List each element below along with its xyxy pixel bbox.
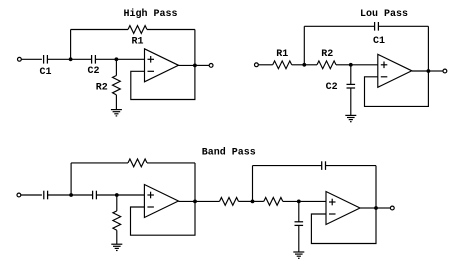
wire: feedback capacitor to top-right corner [326, 165, 377, 167]
resistor R2 (low pass) [317, 61, 336, 69]
capacitor C1 (low pass feedback) [374, 22, 376, 31]
wire: R4 to ground [116, 230, 118, 244]
wire: node D down to C2 [350, 65, 352, 85]
wire: C4 to node F [96, 194, 116, 196]
wire: op-amp output to node [412, 70, 429, 72]
svg-text:C1: C1 [39, 67, 51, 78]
svg-text:R1: R1 [131, 37, 143, 48]
wire: op-amp U4 output to node [360, 207, 376, 209]
output terminal (high pass) [209, 64, 213, 68]
wire: C2 to ground [350, 88, 352, 115]
ground (high pass) [111, 109, 122, 111]
node C junction (R1/R2/C1) [302, 63, 306, 67]
wire: C1 to top-right corner [378, 25, 428, 27]
wire: node H to op-amp + input [299, 200, 326, 202]
output terminal (low pass) [443, 69, 447, 73]
wire: feedback loop U3 output to inverting input [131, 201, 196, 235]
svg-text:Lou Pass: Lou Pass [360, 9, 408, 20]
svg-text:Band Pass: Band Pass [202, 147, 256, 159]
wire: output node to terminal [195, 64, 209, 66]
svg-text:R2: R2 [321, 49, 333, 60]
output terminal (band pass) [390, 206, 394, 210]
wire: C1 to node A [47, 58, 70, 60]
wire: node B to op-amp + input [116, 58, 144, 60]
wire: C2 to node B [95, 58, 116, 60]
ground (band pass stage 1) [111, 243, 122, 245]
capacitor C3 (band pass input) [43, 191, 45, 200]
wire: top-right corner down to output node [427, 26, 429, 71]
capacitor C2 [91, 55, 93, 64]
wire: node F to op-amp + input [117, 194, 145, 196]
capacitor C4 [92, 191, 94, 200]
wire: C6 to ground [298, 225, 300, 252]
wire: input to R1 [258, 64, 272, 66]
wire: R2 to node D [336, 64, 351, 66]
wire: feedback loop U4 output to inverting input [311, 208, 376, 244]
svg-text:R2: R2 [96, 83, 108, 94]
op-amp U1 (high pass) [145, 49, 179, 82]
ground (low pass) [345, 114, 356, 116]
resistor R3 (band pass stage-1 feedback) [128, 159, 147, 167]
svg-text:High Pass: High Pass [124, 8, 178, 20]
wire: R1 to node C [292, 64, 305, 66]
wire: node C to R2 [304, 64, 317, 66]
node F junction [115, 193, 119, 197]
stage-1 output node junction [193, 200, 197, 204]
node H junction [297, 200, 301, 204]
resistor R1 (high pass feedback) [128, 26, 147, 34]
resistor R4 (to ground) [113, 211, 121, 230]
resistor R6 [264, 198, 283, 206]
node D junction (R2/C2/op-amp +) [349, 63, 353, 67]
op-amp U2 (low pass) [378, 54, 412, 87]
capacitor C1 [43, 55, 45, 64]
svg-text:C2: C2 [87, 66, 99, 77]
wire: input to C1 [21, 58, 42, 60]
resistor R2 (to ground) [113, 76, 121, 95]
wire: node F down to R4 [116, 195, 118, 211]
wire: top-left to R1 [71, 29, 128, 31]
node B junction (C2/R2/op-amp +) [115, 57, 119, 61]
wire: node E to C4 [71, 194, 93, 196]
node E junction [69, 193, 73, 197]
wire: node B down to R2 [115, 59, 117, 75]
wire: output node to terminal [428, 70, 443, 72]
op-amp U3 (band pass stage 1) [144, 185, 178, 218]
resistor R1 (low pass) [273, 61, 292, 69]
input terminal (high pass) [18, 57, 22, 61]
capacitor C6 (to ground) [295, 221, 304, 223]
resistor R5 (coupling) [220, 198, 239, 206]
wire: R1 to top-right corner [147, 29, 195, 31]
wire: top-right corner down to output node [194, 30, 196, 66]
svg-text:C2: C2 [326, 82, 338, 93]
wire: node E up to feedback resistor [70, 163, 72, 195]
wire: input to first capacitor [21, 194, 42, 196]
ground (band pass stage 2) [293, 251, 304, 253]
wire: node G up to feedback capacitor [252, 166, 254, 202]
wire: op-amp output to node [179, 64, 195, 66]
wire: output node to terminal [376, 207, 390, 209]
input terminal (low pass) [255, 63, 259, 67]
wire: C3 to node E [48, 194, 72, 196]
op-amp U4 (band pass stage 2) [326, 192, 360, 225]
wire: feedback loop output to inverting input (high pass) [131, 65, 195, 99]
wire: node G to R6 [253, 200, 264, 202]
capacitor C2 (to ground) [347, 83, 356, 85]
input terminal (band pass) [17, 193, 21, 197]
svg-text:R1: R1 [276, 49, 288, 60]
node G junction [251, 200, 255, 204]
wire: R2 to ground [115, 95, 117, 110]
wire: top wire to C1 [304, 25, 374, 27]
wire: node A to C2 [71, 58, 92, 60]
wire: top-left to feedback resistor [71, 162, 128, 164]
output node junction (low pass) [427, 69, 431, 73]
wire: node H down to C6 [298, 201, 300, 221]
wire: top wire to feedback capacitor [253, 165, 322, 167]
wire: R5 to node G [239, 200, 253, 202]
stage-2 output node junction [374, 206, 378, 210]
wire: op-amp U3 output to node [178, 200, 195, 202]
wire: node A up to R1 branch [70, 30, 72, 60]
wire: node C up to C1 branch [303, 26, 305, 65]
wire: feedback loop output to inverting input (low pass) [365, 71, 429, 106]
wire: node D to op-amp + input [351, 64, 378, 66]
wire: feedback resistor to top-right corner [147, 162, 195, 164]
svg-text:C1: C1 [373, 36, 385, 47]
wire: top-right corner down to stage-1 output node [194, 163, 196, 202]
wire: R6 to node H [283, 200, 299, 202]
node A junction (C1/C2/R1) [69, 57, 73, 61]
wire: top-right corner down to stage-2 output node [375, 166, 377, 208]
output node junction (high pass) [193, 64, 197, 68]
capacitor C5 (stage-2 feedback) [321, 161, 323, 170]
wire: stage-1 output to R5 [195, 200, 220, 202]
